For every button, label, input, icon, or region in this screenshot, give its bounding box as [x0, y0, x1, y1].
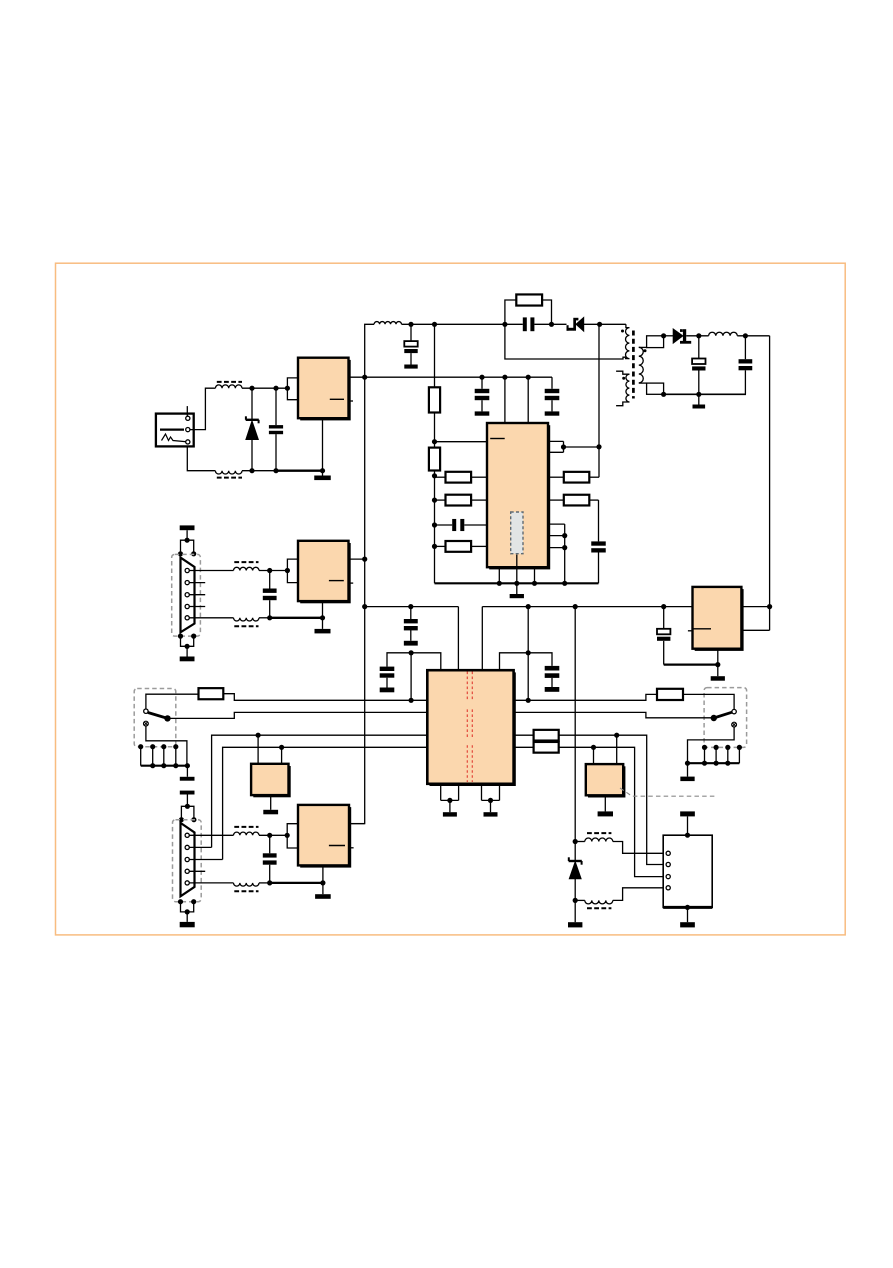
CN2 shell bracket top [181, 806, 194, 819]
inductor L1a (line choke top) [215, 385, 242, 388]
wire bus3 right [514, 734, 534, 736]
node secondary gnd [661, 392, 666, 397]
wire rail 3V3 left [365, 606, 459, 608]
T1 aux phase dot [622, 377, 625, 380]
IC U7 (reset supervisor) [253, 766, 290, 797]
SW1 pin dots [138, 744, 143, 749]
IC1 ground pin [322, 418, 324, 471]
wire zener to gnd [574, 879, 576, 922]
wire L4 to U3 [259, 570, 287, 572]
U4 gnd bracket left [441, 784, 459, 801]
wire U2 fb pin [435, 441, 488, 443]
wire rail Vcc1 [365, 376, 552, 378]
node bus4-U6 [591, 745, 596, 750]
core dashes L4 [234, 561, 258, 563]
wire to L9 [575, 899, 585, 901]
resistor R6 [435, 545, 446, 547]
core dashes L9 [587, 907, 611, 909]
capacitor C3 (output) [744, 336, 746, 359]
node E1 tap [408, 322, 413, 327]
wire SW1 common [146, 694, 199, 709]
U6 ground pin [604, 795, 606, 811]
U3 bracket [287, 559, 298, 583]
node Vout raw [696, 333, 701, 338]
wire CN1 shell bottom [186, 646, 188, 656]
SW2 pin wires [704, 747, 706, 763]
electrolytic E2 [698, 336, 700, 359]
wire L8 to CN3 pin1 [613, 842, 666, 854]
U2 bottom pins [498, 567, 500, 583]
switch SW2 pole [711, 715, 717, 721]
wire sense lead [516, 555, 518, 584]
wire SW2 gnd rail [688, 762, 740, 764]
wire R9 to bus1 [223, 694, 427, 701]
wire neutral to ground [242, 470, 276, 472]
wire SW1 nc to rail [146, 726, 187, 766]
ground AC section [314, 476, 331, 481]
U5 ground pin [717, 649, 719, 665]
wire rail to U4 pin3 [481, 607, 483, 671]
U7 ground pin [270, 795, 272, 810]
ground U6 [598, 811, 613, 816]
ground U7 [263, 810, 278, 815]
node rail taps [526, 604, 531, 609]
U8 ground pin [322, 865, 324, 883]
CN1 pin stubs [189, 582, 205, 584]
IC U4 (digital isolator) [430, 672, 516, 786]
zener D4 [569, 860, 582, 862]
diode D2 (output schottky) [673, 329, 683, 343]
core dashes L1a [217, 381, 242, 383]
CN2 pin stub [189, 870, 205, 872]
switch SW1 throw [144, 709, 148, 713]
U3 ground pin [322, 601, 324, 618]
wire top rail [402, 323, 523, 325]
ground secondary [698, 394, 700, 404]
connector CN1 body [181, 558, 195, 633]
U4 isolation barrier [467, 672, 472, 783]
U8 marker [329, 845, 345, 847]
node C6 tap [432, 522, 437, 527]
node U2 bottom [497, 581, 502, 586]
wire feedback Vout down [769, 336, 771, 607]
node bus1-x528 [526, 698, 531, 703]
wire U4 left cap pin [387, 653, 441, 670]
ground U5 [711, 676, 725, 681]
IC U1 (AC-DC converter) [300, 360, 351, 421]
CN1 shield box [172, 554, 201, 636]
node snubber A [432, 322, 437, 327]
wire CN2 pin3 [189, 859, 222, 861]
node x528 cap tap [526, 650, 531, 655]
CN1 pins [185, 568, 189, 572]
ground zener [568, 922, 582, 927]
wire CN1 shell top [186, 530, 188, 540]
T1 primary phase dot [621, 330, 624, 333]
wire rx2 ground [259, 882, 270, 884]
node CN3 top [685, 833, 690, 838]
wire CN2 shell bottom [186, 912, 188, 922]
wire CN2 rx [189, 882, 233, 884]
wire CN3 shell top [687, 816, 689, 835]
wire isolated supply vertical [574, 607, 576, 861]
wire U8 supply [349, 823, 365, 825]
zener D1 [246, 419, 259, 421]
node R4 tap [432, 473, 437, 478]
wire U4 cap pin [500, 653, 553, 670]
U2 pin1 marker [490, 438, 505, 440]
node tx2 [267, 833, 272, 838]
wire bus3 left [212, 735, 428, 847]
node tx [267, 568, 272, 573]
core dashes L5 [234, 625, 258, 627]
wire rail 3V3 right [482, 606, 692, 608]
ground C5 [545, 411, 560, 415]
ground CN3 bottom [680, 922, 695, 927]
node U5 gnd [715, 662, 720, 667]
inductor L7 [234, 883, 260, 886]
SW1 pin wires [140, 747, 142, 766]
wire L9 to CN3 pin4 [613, 888, 666, 901]
node rx gnd [267, 615, 272, 620]
wire main DC bus (vertical) [349, 324, 375, 823]
ground C9 [404, 641, 418, 646]
ground C11 [380, 688, 395, 693]
wire drain vertical [598, 324, 600, 477]
wire CN2 pin2 [189, 846, 211, 848]
wire U1 output [349, 376, 365, 378]
core dashes L8 [587, 832, 611, 834]
wire U2 bottom rail [435, 582, 599, 584]
ground CN2 bottom [180, 922, 195, 927]
annotation dashed pointer [620, 788, 716, 796]
wire bus1 right [514, 694, 657, 700]
electrolytic E1 [410, 324, 412, 341]
AC source J1 box [156, 414, 194, 447]
CN1 shell bracket bottom [181, 636, 194, 646]
wire SW2 nc to rail [688, 727, 735, 763]
IC U2 (flyback controller) [489, 425, 550, 569]
capacitor C5 [551, 377, 553, 389]
wire U3 supply [349, 558, 365, 560]
U3 marker [329, 580, 344, 582]
U3 stub pin [349, 582, 354, 584]
wire CN3 shell bottom [687, 907, 689, 922]
wire bus4 left [223, 747, 428, 859]
wire left pin bus [434, 471, 436, 584]
node U4 gnd1 [447, 798, 452, 803]
CN3 pins [666, 851, 670, 855]
capacitor C8 [269, 571, 271, 589]
wire rectified [686, 335, 708, 337]
node bus3-U7 [256, 733, 261, 738]
resistor R12 [534, 742, 559, 753]
node CN2 bracket [179, 817, 184, 822]
wire snubber to primary [584, 323, 600, 325]
U2 sense resistor (internal) [511, 512, 523, 554]
ground CN1 top [180, 525, 195, 530]
inductor L3 (output filter) [709, 332, 738, 336]
resistor R9 [199, 688, 224, 699]
node bus1-x411 [409, 698, 414, 703]
wire bus4 to CN3 [559, 747, 666, 876]
U2 drain bracket [548, 441, 564, 452]
node bus-rail1p [362, 375, 367, 380]
wire x528 vertical [527, 607, 529, 701]
node drain bracket [561, 444, 566, 449]
T1 core [632, 331, 635, 399]
wire snubber low side [505, 324, 626, 359]
node CN1 bottom [178, 634, 183, 639]
capacitor C10 [545, 666, 560, 671]
SW2 shield box [704, 688, 747, 748]
resistor R5 [435, 499, 446, 501]
node bus3-U6 [614, 733, 619, 738]
inductor L8 [585, 838, 613, 841]
U2 gnd bracket [548, 524, 565, 583]
CN1 shell bracket top [181, 540, 194, 554]
node rail Vcc1 taps [479, 375, 484, 380]
wire CN1 rx [189, 617, 233, 619]
node secondary top [661, 333, 666, 338]
inductor L5 [234, 618, 260, 621]
node rx2 gnd [267, 880, 272, 885]
node neutral [249, 468, 254, 473]
ground U3 [315, 629, 331, 634]
wire choke to IC1 [242, 387, 287, 389]
node U2 fb [432, 439, 437, 444]
AC source terminal stub [186, 406, 188, 416]
node CN1 shell top [185, 538, 190, 543]
wire rail1 to U4 pin [457, 607, 459, 671]
connector CN3 body [663, 835, 712, 907]
resistor R8 [548, 499, 564, 501]
IC U8 (isolated transceiver) [300, 807, 351, 868]
node snubber mid [549, 322, 554, 327]
wire U7 pins [257, 735, 259, 764]
node CN1 bracket [178, 551, 183, 556]
core dashes L6 [234, 826, 258, 828]
ground CN3 top [680, 811, 695, 816]
wire E3 to U5 gnd [664, 663, 718, 665]
node CN2 shell [185, 804, 190, 809]
wire snubber mid [534, 323, 566, 325]
node Vout [743, 333, 748, 338]
ground U8 [315, 894, 331, 899]
capacitor C11 [380, 667, 395, 671]
capacitor C6 [435, 524, 453, 526]
wire divider bus [434, 324, 436, 387]
wire rx ground [259, 617, 270, 619]
IC U5 (LDO regulator) [695, 589, 744, 651]
wire divider mid [434, 413, 436, 448]
CN2 shield box [173, 820, 202, 902]
capacitor C4 [481, 377, 483, 389]
wire secondary ground rail [664, 393, 746, 395]
ground U4 right [490, 800, 492, 812]
ground SW2 [687, 763, 689, 776]
wire drain link [564, 446, 600, 448]
wire SW1 pole to bus2 [168, 712, 428, 718]
CN2 pins [185, 833, 189, 837]
AC terminal pins [186, 416, 190, 420]
resistor R7 [548, 476, 564, 478]
switch SW2 lever [714, 712, 732, 718]
capacitor C12 (shell Y-cap) [186, 766, 188, 777]
switch SW2 throw [732, 709, 736, 713]
SW1 shield box [134, 689, 176, 747]
wire CN1 tx [189, 570, 233, 572]
electrolytic E3 [663, 607, 665, 629]
wire bus4 right [514, 746, 534, 748]
ground C4 [475, 411, 490, 415]
ground C10 [545, 687, 560, 692]
zener D1 lead [251, 388, 253, 419]
T1 secondary phase dot [644, 349, 647, 352]
wire bus2 right [514, 712, 714, 717]
wire CN2 tx [189, 834, 233, 836]
U8 bracket [287, 824, 298, 848]
capacitor C2 (snubber) [523, 317, 527, 331]
node line-filtered [249, 386, 254, 391]
node C9 tap [408, 604, 413, 609]
switch SW1 lever [148, 713, 168, 719]
node drain vert [596, 444, 601, 449]
wire SW1 gnd rail [141, 765, 188, 767]
resistor R1 (snubber) [516, 294, 542, 305]
zener D1 lead2 [251, 440, 253, 471]
wire to rectifier [664, 335, 674, 337]
connector CN2 body [181, 823, 195, 896]
capacitor C9 [410, 607, 412, 619]
U1 stub pin [349, 400, 354, 402]
U1 input bracket [287, 378, 298, 400]
U5 marker [694, 628, 712, 630]
AC source waveform [162, 434, 188, 442]
wire to L8 [575, 841, 585, 843]
resistor R10 [657, 689, 683, 700]
resistor R4 [435, 476, 446, 478]
wire U6 pins [616, 735, 618, 764]
U1 marker [330, 398, 344, 400]
resistor R2 (upper divider) [429, 387, 440, 412]
node R6 tap [432, 544, 437, 549]
wire R10 to SW2 [683, 694, 734, 709]
wire AC neutral [187, 446, 215, 470]
U8 stub pin [349, 847, 354, 849]
switch SW2 nc contact [732, 722, 737, 727]
node bus-IC3 [362, 557, 367, 562]
T1 secondary top link [639, 346, 647, 348]
wire bus3 to CN3 [559, 735, 666, 864]
inductor L2 (DC filter) [374, 322, 401, 325]
U4 gnd bracket right [482, 784, 500, 801]
node zener bottom [573, 898, 578, 903]
CN2 shell bracket bottom [181, 902, 194, 912]
wire Vout [737, 335, 769, 337]
node R5 tap [432, 498, 437, 503]
wire U5 input pins [741, 606, 769, 608]
inductor L1b (line choke bottom) [215, 471, 242, 474]
diode D3 (snubber, schottky) [573, 318, 576, 331]
U5 stub pin [688, 630, 693, 632]
wire U2 vcc pins [504, 377, 506, 423]
inductor L6 [234, 832, 260, 835]
node SW2 rail [685, 761, 690, 766]
ground CN1 bottom [180, 657, 195, 662]
wire L6 to U8 [259, 834, 287, 836]
inductor L9 [585, 900, 613, 904]
node left cap [409, 650, 414, 655]
resistor R3 (lower divider) [429, 448, 440, 471]
node U5 input [767, 604, 772, 609]
node zener top [573, 839, 578, 844]
node drain [597, 322, 602, 327]
resistor R11 [534, 730, 559, 741]
capacitor C1 [275, 388, 277, 425]
ground E1 [404, 365, 417, 369]
capacitor C7 [598, 500, 600, 541]
transformer T1 primary [626, 324, 630, 327]
capacitor C13 [269, 835, 271, 853]
core dashes L7 [234, 890, 258, 892]
node CN3 bottom [685, 905, 690, 910]
node gnd bracket [562, 533, 567, 538]
node SW1 rail [150, 763, 155, 768]
switch SW1 pole [164, 715, 170, 721]
T1 secondary bottom link [639, 382, 647, 384]
inductor L4 [234, 567, 260, 570]
core dashes L1b [217, 477, 242, 479]
wire x411 vertical [410, 653, 412, 701]
ground U4 left [449, 800, 451, 812]
border frame [56, 263, 846, 935]
IC U6 (ESD protector) [588, 766, 625, 797]
node bus-rail1 [362, 604, 367, 609]
switch SW1 nc contact [144, 721, 149, 726]
wire AC line to choke [190, 388, 215, 429]
ground U2 [516, 583, 518, 594]
T1 secondary [639, 347, 643, 383]
IC U3 (transceiver) [300, 543, 351, 603]
SW2 pin dots [702, 745, 707, 750]
node bus4-U7 [279, 745, 284, 750]
node CN2 bottom [178, 899, 183, 904]
node U4 gnd2 [488, 798, 493, 803]
T1 aux winding [626, 374, 629, 402]
node U1 input [285, 386, 290, 391]
snubber resistor loop [505, 300, 516, 324]
